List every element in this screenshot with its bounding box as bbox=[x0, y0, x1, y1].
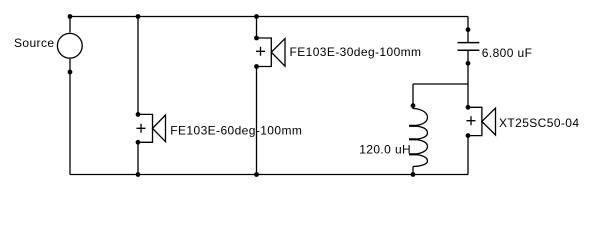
svg-text:FE103E-60deg-100mm: FE103E-60deg-100mm bbox=[170, 123, 302, 137]
wire cap bottom lead to tweeter bbox=[467, 51, 469, 107]
speaker S2 terminal dot bottom bbox=[136, 140, 141, 145]
tweeter S3 terminal dot bottom bbox=[466, 133, 471, 138]
svg-text:FE103E-30deg-100mm: FE103E-30deg-100mm bbox=[290, 45, 422, 59]
wire top bus bbox=[70, 16, 468, 18]
inductor L1 coil bbox=[411, 109, 428, 167]
wire source top lead bbox=[69, 17, 71, 33]
inductor L1 terminal dot top bbox=[411, 103, 416, 108]
svg-text:Source: Source bbox=[14, 36, 54, 50]
source V1 terminal dot bottom bbox=[68, 70, 73, 75]
capacitor C1 terminal dot top bbox=[466, 27, 471, 32]
junction dot bottom bus at speaker2 bbox=[136, 172, 141, 177]
wire inductor top lead bbox=[412, 84, 414, 109]
junction dot bottom bus at speaker1 bbox=[254, 172, 259, 177]
source V1 terminal dot top bbox=[68, 14, 73, 19]
speaker S2 FE103E-60deg-100mm symbol bbox=[138, 114, 166, 142]
tweeter S3 terminal dot top bbox=[466, 105, 471, 110]
speaker S2 terminal dot top bbox=[136, 112, 141, 117]
junction dot top bus at speaker1 bbox=[254, 14, 259, 19]
tweeter S3 XT25SC50-04 symbol bbox=[468, 107, 496, 135]
wire source bottom lead bbox=[69, 59, 71, 175]
svg-text:6.800 uF: 6.800 uF bbox=[482, 46, 533, 60]
speaker S1 FE103E-30deg-100mm symbol bbox=[257, 38, 286, 67]
capacitor C1 bottom plate bbox=[458, 49, 480, 51]
speaker S2 plus sign bbox=[137, 124, 146, 133]
svg-text:XT25SC50-04: XT25SC50-04 bbox=[499, 116, 579, 130]
wire inductor bottom lead bbox=[412, 167, 414, 175]
tweeter S3 plus sign bbox=[467, 116, 476, 125]
wire cap top lead bbox=[467, 17, 469, 43]
junction dot bottom bus at inductor bbox=[411, 172, 416, 177]
speaker S1 terminal dot top bbox=[254, 36, 259, 41]
speaker S1 terminal dot bottom bbox=[254, 64, 259, 69]
capacitor C1 top plate bbox=[458, 42, 480, 44]
speaker S1 plus sign bbox=[256, 47, 265, 56]
wire mid branch bbox=[413, 83, 468, 85]
source V1 circle bbox=[57, 33, 82, 58]
wire speaker2 branch bottom bbox=[137, 142, 139, 174]
junction dot top bus at speaker2 bbox=[136, 14, 141, 19]
svg-text:120.0 uH: 120.0 uH bbox=[359, 142, 411, 156]
wire speaker2 branch top bbox=[137, 17, 139, 115]
inductor L1 crossing ticks bbox=[409, 126, 417, 155]
wire speaker1 branch bottom bbox=[256, 67, 258, 175]
wire tweeter bottom lead bbox=[467, 136, 469, 175]
wire speaker1 branch top bbox=[256, 17, 258, 39]
capacitor C1 terminal dot bottom bbox=[466, 61, 471, 66]
wire bottom bus bbox=[70, 174, 468, 176]
